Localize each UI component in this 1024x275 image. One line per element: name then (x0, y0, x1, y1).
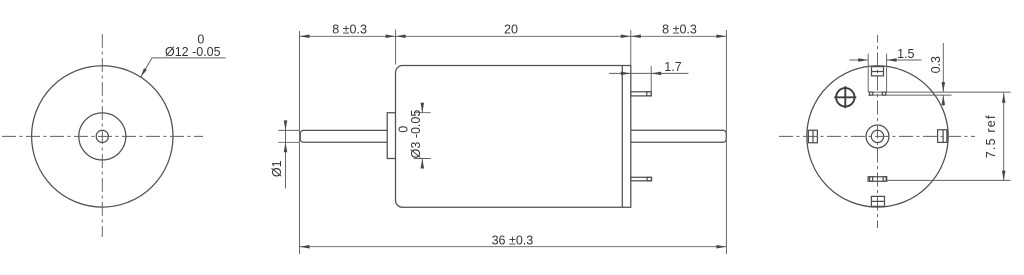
bottom tab plate (868, 177, 887, 181)
dim 1.7 arrows (621, 72, 631, 76)
bottom notch square (871, 196, 884, 206)
vertical centerline (877, 35, 879, 228)
svg-text:0: 0 (197, 32, 204, 46)
dim Ø3 extension ticks (414, 112, 431, 114)
hub outer circle (866, 125, 889, 148)
dim Ø3 arrows (421, 103, 425, 113)
arrows top dim (300, 35, 310, 39)
bottom dimension line 36 ±0.3 (300, 246, 727, 248)
dim Ø1 extension lines (278, 129, 299, 131)
bracket squares (870, 92, 873, 95)
hub inner circle (871, 130, 883, 142)
bracket bar bottom line (868, 94, 951, 96)
svg-text:36 ±0.3: 36 ±0.3 (492, 233, 534, 247)
crosshair mark (834, 86, 856, 108)
leader arrowhead (141, 68, 147, 77)
svg-text:1.7: 1.7 (664, 60, 681, 74)
svg-text:20: 20 (504, 23, 518, 37)
bracket bar top line (868, 91, 1010, 93)
svg-text:Ø12 -0.05: Ø12 -0.05 (165, 45, 221, 59)
top terminal end view (872, 67, 884, 76)
svg-text:0.3: 0.3 (929, 56, 943, 73)
svg-text:Ø1: Ø1 (270, 160, 284, 177)
outer circle (807, 66, 948, 207)
motor body (396, 66, 631, 208)
terminal tab sides (868, 54, 886, 93)
dim 1.5 line (849, 59, 921, 61)
dim 1.7 extension line (650, 66, 652, 92)
svg-text:1.5: 1.5 (897, 47, 914, 61)
middle circle (bearing boss front) (79, 113, 126, 160)
top terminal hole (647, 92, 651, 96)
outer circle (motor body front, Ø12) (32, 66, 173, 207)
svg-text:8 ±0.3: 8 ±0.3 (332, 23, 367, 37)
svg-text:7.5 ref: 7.5 ref (984, 114, 998, 158)
top terminal (631, 92, 651, 96)
inner circle (shaft front) (96, 130, 108, 142)
horizontal centerline (2, 135, 203, 137)
dim Ø1 arrows (284, 120, 288, 130)
7.5 ref extension lines (887, 179, 1011, 181)
end cap seam line (621, 66, 623, 208)
left tab (808, 130, 817, 143)
svg-text:0: 0 (396, 126, 410, 133)
right tab (938, 130, 947, 143)
extension line shaft-right (x=726.4) (725, 30, 727, 254)
dim Ø1 line (285, 121, 287, 188)
dim 1.7 line (609, 72, 689, 74)
extension line body-right (x=630.8) (630, 30, 632, 66)
bottom tab squares (870, 177, 873, 181)
svg-text:8 ±0.3: 8 ±0.3 (662, 23, 697, 37)
extension line body-left (x=395.6) (395, 30, 397, 65)
svg-text:Ø3 -0.05: Ø3 -0.05 (409, 110, 423, 159)
bearing boss (387, 113, 395, 159)
7.5 ref dim line (1003, 93, 1005, 181)
leader line Ø12 (141, 58, 226, 77)
bottom terminal (631, 177, 652, 181)
horizontal centerline (779, 135, 975, 137)
vertical centerline (101, 34, 103, 237)
dim Ø3 line (421, 103, 423, 169)
extension line left (x=299.5) (299, 31, 301, 254)
right shaft (631, 130, 727, 142)
bottom terminal hole (647, 177, 651, 181)
top dimension line (300, 35, 727, 37)
dim 0.3 line (942, 43, 944, 106)
left shaft (300, 130, 387, 142)
